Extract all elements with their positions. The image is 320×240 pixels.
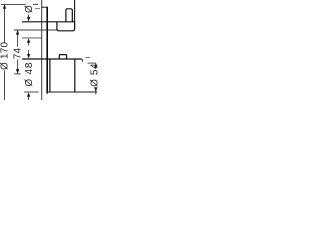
node Ø54 top extension dash — [88, 62, 96, 64]
node handle block right edge — [74, 59, 76, 92]
node upper body bottom edge extension (y=30) — [14, 29, 58, 31]
node handle block top edge (y=59) — [22, 58, 82, 60]
svg-text:74: 74 — [13, 47, 24, 59]
node Ø170 top arrowhead — [3, 4, 6, 9]
node plate: escutcheon top edge — [41, 6, 48, 8]
wire: wall surface line — [41, 0, 43, 100]
node Ø32 stem + down arrowhead — [28, 15, 30, 19]
node 74 top arrowhead — [16, 30, 19, 35]
svg-text:Ø 170: Ø 170 — [0, 42, 11, 70]
node Ø170 top extension line — [1, 3, 26, 5]
node 74 dimension line — [17, 30, 19, 47]
node handle nub — [59, 55, 66, 59]
node Ø54 dimension line — [95, 63, 97, 64]
node Ø54 jog dash upper — [85, 56, 90, 58]
node Ø48 stem + down arrowhead — [28, 50, 30, 55]
node Ø170 dimension line — [4, 5, 6, 43]
node Ø54 bottom arrowhead — [94, 87, 97, 92]
node upper body top edge (y=21.5) — [22, 21, 75, 23]
node handle block left edge — [49, 59, 51, 92]
node Ø32 bottom up arrowhead + stem — [27, 38, 30, 43]
node small dash near plate top — [35, 8, 40, 10]
svg-text:Ø 48: Ø 48 — [24, 62, 35, 87]
node upper box right edge extension upward — [74, 0, 76, 28]
node Ø54 top arrowhead — [94, 63, 97, 68]
node handle block bottom edge + Ø54 extension (y=92) — [47, 91, 97, 93]
svg-text:Ø 32: Ø 32 — [24, 0, 35, 13]
node top-hat stem cover — [66, 9, 72, 22]
node Ø48 bottom up arrowhead + stem — [27, 92, 30, 97]
node 74 bottom arrowhead — [16, 69, 19, 74]
node Ø54 jog extension hook — [81, 59, 82, 62]
node upper box outline with rounded bottom corners — [57, 22, 75, 31]
node Ø48 bottom extension dash — [24, 91, 39, 93]
node hidden edge (y=38) — [22, 37, 42, 39]
node 74 bottom extension dash — [14, 73, 21, 75]
node plate: escutcheon front face — [46, 7, 48, 94]
svg-text:Ø 54: Ø 54 — [90, 63, 100, 87]
background — [0, 0, 100, 100]
